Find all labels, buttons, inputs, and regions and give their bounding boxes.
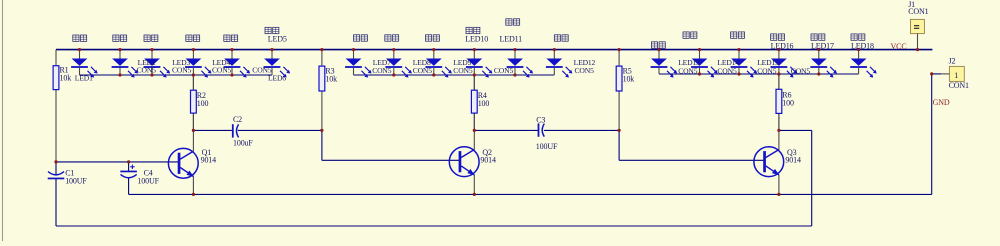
connector J1 bbox=[908, 0, 928, 33]
wire R4 bottom stub bbox=[473, 113, 475, 130]
LED LED10 (green) bbox=[466, 50, 493, 78]
net label GND bbox=[933, 98, 950, 107]
wire Q2 collector to C3 bbox=[474, 129, 537, 131]
junction dot Q1 base / R1 / C1 bbox=[54, 160, 57, 163]
svg-text:9014: 9014 bbox=[201, 156, 217, 165]
LED LED1 (red) bbox=[71, 50, 98, 78]
junction dot C2 / R3 node bbox=[320, 129, 323, 132]
svg-text:CON5: CON5 bbox=[212, 66, 232, 75]
junction dot Q2 emitter bbox=[473, 193, 476, 196]
wire feedback vertical bbox=[811, 130, 813, 226]
wire R3 node down bbox=[321, 130, 323, 160]
wire R1 top stub bbox=[55, 50, 57, 66]
LED LED2 (red) bbox=[112, 50, 139, 78]
wire R6 top stub bbox=[778, 74, 780, 89]
transistor Q1 bbox=[168, 148, 216, 178]
svg-text:CON5: CON5 bbox=[413, 66, 433, 75]
svg-text:10k: 10k bbox=[60, 73, 72, 82]
svg-text:100: 100 bbox=[782, 99, 794, 108]
LED LED16 (yellow) bbox=[771, 50, 798, 78]
wire Q2 base bbox=[322, 159, 460, 161]
resistor R6 bbox=[776, 89, 794, 113]
svg-text:1: 1 bbox=[954, 71, 958, 80]
junction dots on VCC rail bbox=[78, 48, 919, 51]
resistor R3 bbox=[319, 66, 337, 91]
wire R4 top stub bbox=[473, 75, 475, 90]
wire GND riser to J2 bbox=[931, 74, 933, 194]
junction dot J2 corner bbox=[930, 72, 933, 75]
capacitor C4 bbox=[120, 165, 159, 186]
junction dot Q2 collector node bbox=[473, 129, 476, 132]
resistor R4 bbox=[471, 90, 489, 113]
LED LED17 (yellow) bbox=[810, 50, 837, 78]
svg-text:CON5: CON5 bbox=[453, 66, 473, 75]
wire Q2 collector column bbox=[473, 75, 475, 150]
yellow colour labels (huang se) bbox=[651, 32, 865, 48]
LED LED4 (red) bbox=[185, 50, 212, 78]
LED LED8 (green) bbox=[385, 50, 412, 78]
wire Q1 collector to C2 bbox=[193, 129, 232, 131]
red colour labels (hong se) bbox=[73, 27, 279, 41]
resistor R2 bbox=[191, 90, 209, 113]
wire Q3 collector to feedback corner bbox=[779, 129, 812, 131]
svg-text:C2: C2 bbox=[233, 115, 242, 124]
LED LED7 (green) bbox=[345, 50, 372, 78]
LED LED3 (red) bbox=[144, 50, 171, 78]
wire R3 top stub bbox=[321, 50, 323, 67]
wire J2 to riser bbox=[932, 73, 941, 75]
svg-text:100: 100 bbox=[197, 99, 209, 108]
svg-text:9014: 9014 bbox=[480, 155, 496, 164]
wire yellow LED cathode rail bbox=[659, 73, 859, 75]
wire emitter GND rail bbox=[129, 193, 932, 195]
wire feedback bottom rail bbox=[56, 225, 812, 227]
net label VCC bbox=[891, 42, 907, 51]
junction dots green cathode rail bbox=[392, 73, 516, 76]
svg-text:CON5: CON5 bbox=[791, 66, 811, 75]
svg-text:J2: J2 bbox=[949, 57, 956, 66]
svg-text:CON5: CON5 bbox=[137, 66, 157, 75]
wire R2 top stub bbox=[192, 75, 194, 90]
wire red LED cathode rail bbox=[80, 74, 273, 76]
resistor R5 bbox=[616, 66, 634, 91]
connector J2 bbox=[949, 57, 969, 90]
svg-text:LED5: LED5 bbox=[268, 35, 287, 44]
wire R6 bottom stub bbox=[778, 113, 780, 130]
junction dot C3 / R5 node bbox=[618, 129, 621, 132]
junction dot Q3 emitter bbox=[777, 193, 780, 196]
svg-text:100uF: 100uF bbox=[233, 138, 253, 147]
svg-text:VCC: VCC bbox=[891, 42, 907, 51]
junction dots yellow cathode rail bbox=[698, 72, 821, 75]
svg-text:100: 100 bbox=[478, 99, 490, 108]
svg-text:CON5: CON5 bbox=[172, 66, 192, 75]
LED LED12 (green) bbox=[546, 50, 573, 78]
svg-text:100UF: 100UF bbox=[65, 176, 87, 185]
svg-text:LED6: LED6 bbox=[268, 74, 286, 83]
svg-text:LED18: LED18 bbox=[851, 42, 874, 51]
connector J1 pin bbox=[917, 34, 919, 50]
wire R5 node down bbox=[618, 130, 620, 160]
svg-text:LED16: LED16 bbox=[771, 42, 794, 51]
capacitor C3 bbox=[536, 115, 558, 150]
green colour labels (lv se) bbox=[354, 19, 569, 41]
svg-text:CON1: CON1 bbox=[908, 7, 928, 16]
wire Q1 base bbox=[56, 161, 179, 163]
svg-text:100UF: 100UF bbox=[137, 176, 159, 185]
svg-text:10k: 10k bbox=[325, 74, 337, 83]
wire R1 bottom to base node bbox=[55, 90, 57, 162]
wire Q3 collector column bbox=[778, 74, 780, 150]
wire Q3 emitter stub bbox=[778, 175, 780, 195]
svg-text:CON5: CON5 bbox=[575, 66, 595, 75]
svg-text:GND: GND bbox=[933, 98, 950, 107]
transistor Q2 bbox=[449, 147, 496, 177]
wire Q1 collector column bbox=[192, 75, 194, 151]
LED LED11 (green) bbox=[507, 50, 533, 78]
LED designator labels bbox=[75, 35, 874, 83]
LED LED6 (red) bbox=[264, 50, 291, 78]
wire R5 top stub bbox=[618, 50, 620, 67]
wire C4 bottom stub bbox=[128, 178, 130, 195]
junction dot Q1 collector node bbox=[192, 129, 195, 132]
wire R3 bottom bbox=[321, 91, 323, 130]
wire C2 to R3 node bbox=[238, 129, 322, 131]
LED LED14 (yellow) bbox=[691, 50, 718, 78]
LED LED5 (red) bbox=[224, 50, 251, 78]
capacitor C2 bbox=[232, 115, 254, 147]
capacitor C1 bbox=[48, 169, 88, 186]
sheet border bbox=[2, 0, 4, 241]
svg-text:CON1: CON1 bbox=[949, 81, 969, 90]
svg-text:10k: 10k bbox=[623, 74, 635, 83]
wire C1 bottom to feedback rail bbox=[55, 179, 57, 226]
svg-text:CON5: CON5 bbox=[494, 66, 514, 75]
LED LED9 (green) bbox=[425, 50, 452, 78]
svg-text:CON5: CON5 bbox=[757, 66, 777, 75]
transistor Q3 bbox=[754, 147, 801, 177]
wire Q3 base bbox=[619, 159, 764, 161]
svg-text:CON5: CON5 bbox=[717, 66, 737, 75]
svg-text:LED1: LED1 bbox=[75, 73, 93, 82]
svg-text:9014: 9014 bbox=[785, 155, 801, 164]
junction dot Q1 emitter bbox=[192, 193, 195, 196]
wire Q1 emitter stub bbox=[192, 176, 194, 194]
resistor R1 bbox=[53, 65, 71, 89]
junction dot C4 tap bbox=[127, 160, 130, 163]
svg-text:LED11: LED11 bbox=[500, 35, 523, 44]
wire C1 top stub bbox=[55, 162, 57, 175]
LED LED18 (yellow) bbox=[850, 50, 877, 78]
wire Q2 emitter stub bbox=[473, 175, 475, 195]
LED LED13 (yellow) bbox=[651, 50, 678, 78]
wire C4 top stub bbox=[128, 162, 130, 171]
svg-text:LED10: LED10 bbox=[465, 35, 488, 44]
svg-text:C3: C3 bbox=[536, 115, 545, 124]
wire green LED cathode rail bbox=[354, 74, 555, 76]
wire R2 bottom stub bbox=[192, 113, 194, 130]
LED LED15 (yellow) bbox=[731, 50, 758, 78]
junction dots red cathode rail bbox=[118, 73, 233, 76]
junction dot Q3 collector node bbox=[777, 129, 780, 132]
svg-text:CON5: CON5 bbox=[678, 66, 698, 75]
wire C3 to R5 node bbox=[544, 129, 619, 131]
svg-text:100UF: 100UF bbox=[536, 142, 558, 151]
connector J2 pin bbox=[941, 73, 949, 75]
svg-text:CON5: CON5 bbox=[372, 66, 392, 75]
wire VCC top rail bbox=[56, 49, 932, 51]
svg-text:LED17: LED17 bbox=[811, 42, 834, 51]
wire R5 bottom bbox=[618, 91, 620, 130]
